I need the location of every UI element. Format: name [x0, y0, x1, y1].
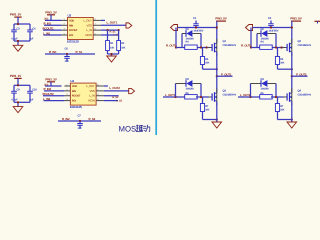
- svg-text:EG3112S: EG3112S: [70, 105, 82, 109]
- resistor R2: [106, 41, 115, 51]
- net label R_S1: [76, 50, 83, 54]
- resistor gate: [185, 41, 198, 50]
- wire: [101, 24, 126, 26]
- svg-text:R_IN2: R_IN2: [62, 117, 70, 121]
- wire: [176, 84, 202, 98]
- net label R_OUT2: [241, 43, 252, 47]
- wire: [278, 65, 292, 70]
- junction: [205, 46, 207, 48]
- net label R_S1: [110, 30, 117, 33]
- svg-text:R_S2: R_S2: [89, 117, 96, 121]
- wire: [217, 75, 233, 77]
- capacitor C6: [64, 48, 70, 64]
- svg-text:P_OUT2: P_OUT2: [296, 72, 307, 76]
- wire: [253, 27, 292, 29]
- wire: [43, 95, 64, 97]
- wire: [250, 28, 252, 48]
- wire: [257, 34, 276, 48]
- net label L_S2: [116, 99, 122, 102]
- wire: [182, 34, 201, 48]
- svg-text:EG3112S: EG3112S: [67, 39, 79, 43]
- net label L_IN2: [43, 97, 51, 101]
- junction: [275, 46, 277, 48]
- power port partial: [315, 21, 320, 23]
- svg-text:U4: U4: [70, 79, 74, 83]
- net label L_OUT1: [107, 21, 118, 25]
- wire: [14, 17, 30, 24]
- resistor gate: [260, 41, 273, 50]
- svg-text:RCI: RCI: [69, 34, 73, 37]
- svg-text:RCOUT: RCOUT: [72, 95, 81, 98]
- junction: [17, 84, 19, 86]
- svg-text:10K: 10K: [121, 47, 125, 50]
- svg-text:10uF/25V: 10uF/25V: [194, 29, 204, 32]
- U3 part number: [67, 39, 79, 43]
- wire: [277, 48, 279, 57]
- wire: [14, 102, 30, 106]
- wire: [14, 41, 30, 45]
- svg-text:VSS: VSS: [89, 89, 94, 93]
- junction: [200, 96, 202, 98]
- junction: [280, 46, 282, 48]
- wire: [104, 90, 129, 92]
- wire: [45, 15, 62, 21]
- power port PW3_3V: [10, 74, 22, 79]
- resistor R3: [117, 41, 126, 51]
- capacitor C9: [11, 85, 20, 102]
- wire: [291, 21, 293, 43]
- junction: [17, 101, 19, 103]
- svg-text:3V3: 3V3: [44, 18, 49, 21]
- net label R_S2: [112, 96, 119, 99]
- svg-text:3V3: 3V3: [44, 83, 49, 86]
- svg-text:RCIN: RCIN: [88, 99, 94, 103]
- junction: [79, 120, 81, 122]
- svg-text:1uF: 1uF: [78, 127, 83, 130]
- svg-text:PW3_3V: PW3_3V: [45, 10, 57, 14]
- svg-text:RCOUT: RCOUT: [69, 29, 78, 32]
- wire: [108, 51, 119, 57]
- svg-text:L_OUT1: L_OUT1: [107, 21, 118, 25]
- wire: [271, 96, 284, 98]
- svg-text:R_IN1: R_IN1: [49, 50, 57, 54]
- wire: [104, 95, 119, 97]
- svg-text:1N4148: 1N4148: [186, 87, 195, 90]
- net label P_OUT1: [221, 72, 232, 76]
- svg-text:U3: U3: [68, 13, 72, 17]
- U3 pin numbers: [64, 18, 97, 36]
- net label RCOUT1: [43, 26, 55, 30]
- diode D4: [261, 78, 270, 90]
- net label 3V3: [44, 18, 49, 21]
- junction: [175, 46, 177, 48]
- ground: [107, 56, 117, 62]
- ground: [13, 107, 23, 113]
- svg-text:CSD18509-N: CSD18509-N: [223, 93, 237, 96]
- svg-text:PW3_3V: PW3_3V: [10, 13, 22, 17]
- svg-text:1uF: 1uF: [29, 99, 34, 102]
- junction: [249, 96, 251, 98]
- IC U4: [70, 79, 96, 105]
- net label L_OUT2: [240, 93, 251, 97]
- wire: [216, 52, 218, 76]
- net label RCOUT2: [43, 92, 55, 96]
- resistor 10K: [275, 104, 284, 112]
- junction: [291, 75, 293, 77]
- wire: [45, 53, 95, 55]
- junction: [291, 68, 293, 70]
- net label 3V3: [44, 83, 49, 86]
- junction: [250, 46, 252, 48]
- separator line: [155, 0, 157, 135]
- wire: [44, 90, 64, 92]
- resistor 10K: [200, 104, 209, 112]
- diode D1: [186, 28, 195, 40]
- svg-text:VDD: VDD: [69, 19, 74, 22]
- svg-text:CSD18509-N: CSD18509-N: [298, 93, 312, 96]
- svg-text:R_IN2: R_IN2: [44, 87, 52, 91]
- wire: [178, 27, 217, 29]
- wire: [44, 100, 65, 102]
- junction: [216, 75, 218, 77]
- svg-text:PW3_5V: PW3_5V: [215, 17, 227, 21]
- svg-text:L_OUT: L_OUT: [86, 84, 95, 88]
- wire: [202, 48, 204, 57]
- svg-text:PW3_3V: PW3_3V: [45, 77, 57, 81]
- capacitor C7: [77, 115, 83, 131]
- wire: [251, 84, 277, 98]
- wire: [216, 76, 218, 92]
- svg-text:L_OUT2: L_OUT2: [109, 86, 120, 90]
- svg-text:1uF: 1uF: [29, 37, 34, 40]
- net label R_IN2: [44, 87, 52, 91]
- wire: [44, 34, 62, 36]
- transistor Q4: [283, 89, 311, 106]
- power port PW3_5V: [290, 17, 302, 22]
- resistor 10K: [275, 57, 284, 65]
- title MOS drive: [119, 124, 150, 133]
- svg-text:1uF: 1uF: [65, 60, 70, 63]
- svg-text:C10: C10: [32, 89, 37, 92]
- svg-text:10K: 10K: [205, 109, 209, 112]
- junction: [270, 26, 272, 28]
- svg-text:R_S1: R_S1: [76, 50, 83, 54]
- power port PW3_5V: [215, 17, 227, 22]
- net label R_IN1: [44, 22, 52, 26]
- wire: [14, 78, 30, 85]
- svg-text:0.1uF: 0.1uF: [12, 37, 19, 40]
- junction: [275, 96, 277, 98]
- transistor Q1: [208, 39, 236, 56]
- svg-text:RIN: RIN: [72, 90, 76, 93]
- wire: [43, 29, 62, 31]
- U4 part number: [70, 105, 82, 109]
- junction: [174, 96, 176, 98]
- wire: [101, 19, 105, 21]
- junction: [200, 46, 202, 48]
- IC U3: [68, 13, 94, 39]
- svg-text:L_S2: L_S2: [116, 99, 122, 102]
- wire: [216, 101, 218, 122]
- U4 pin numbers: [66, 83, 99, 101]
- net label P_OUT2: [296, 72, 307, 76]
- svg-text:VSS: VSS: [87, 23, 92, 27]
- svg-text:L_IN: L_IN: [86, 28, 91, 32]
- wire: [101, 29, 119, 31]
- U4 pin names: [72, 84, 95, 103]
- junction: [216, 68, 218, 70]
- junction: [195, 26, 197, 28]
- wire: [202, 97, 204, 104]
- svg-text:MOS: MOS: [119, 124, 137, 133]
- svg-text:L_OUT2: L_OUT2: [240, 93, 251, 97]
- wire: [203, 65, 217, 70]
- U3 pins: [62, 20, 102, 35]
- wire: [291, 76, 293, 92]
- wire: [175, 28, 177, 48]
- wire: [101, 34, 118, 36]
- port L_OUT2: [129, 88, 135, 93]
- svg-text:RIN: RIN: [69, 24, 73, 27]
- svg-text:L_OUT1: L_OUT1: [165, 93, 176, 97]
- port input: [171, 25, 178, 31]
- wire: [118, 30, 120, 40]
- svg-text:RCOUT1: RCOUT1: [43, 26, 55, 30]
- wire: [238, 96, 260, 98]
- junction: [118, 29, 120, 31]
- capacitor C2: [268, 17, 279, 32]
- capacitor C4: [27, 24, 36, 41]
- svg-text:RCIN: RCIN: [85, 33, 91, 37]
- svg-text:L_IN2: L_IN2: [43, 97, 51, 101]
- svg-text:CSD18509-N: CSD18509-N: [298, 44, 312, 47]
- wire: [291, 52, 293, 76]
- svg-text:10K: 10K: [110, 47, 114, 50]
- power port PW3_3V: [45, 10, 57, 15]
- wire: [216, 21, 218, 43]
- svg-text:10uF/25V: 10uF/25V: [269, 29, 279, 32]
- power port PW3_3V: [10, 13, 22, 18]
- diode D3: [186, 78, 195, 90]
- wire: [104, 85, 108, 87]
- svg-text:L_OUT: L_OUT: [83, 18, 92, 22]
- net label R_S2: [89, 117, 96, 121]
- wire: [58, 120, 101, 122]
- capacitor C1: [193, 17, 204, 32]
- net label L_S1: [113, 34, 119, 37]
- junction: [291, 26, 293, 28]
- svg-text:10K: 10K: [205, 62, 209, 65]
- junction: [66, 53, 68, 55]
- ground: [287, 122, 297, 128]
- wire: [203, 112, 217, 120]
- transistor Q2: [283, 39, 311, 56]
- svg-text:VDD: VDD: [72, 85, 77, 88]
- power port PW3_3V: [45, 77, 57, 82]
- junction: [110, 53, 112, 55]
- wire: [44, 24, 62, 26]
- wire: [292, 75, 308, 77]
- wire: [291, 101, 293, 122]
- svg-text:PW3_3V: PW3_3V: [10, 74, 22, 78]
- wire: [104, 100, 118, 102]
- svg-text:P_OUT1: P_OUT1: [221, 72, 232, 76]
- transistor Q3: [208, 89, 236, 106]
- svg-text:PW3_5V: PW3_5V: [290, 17, 302, 21]
- wire: [176, 47, 209, 49]
- svg-text:L_IN: L_IN: [89, 94, 94, 98]
- svg-text:10K: 10K: [280, 62, 284, 65]
- junction: [291, 118, 293, 120]
- wire: [277, 97, 279, 104]
- svg-text:CSD18509-N: CSD18509-N: [223, 44, 237, 47]
- wire: [107, 30, 109, 40]
- svg-text:0.1uF: 0.1uF: [12, 99, 19, 102]
- junction: [106, 29, 108, 31]
- svg-text:10K: 10K: [280, 109, 284, 112]
- svg-text:RCOUT2: RCOUT2: [43, 92, 55, 96]
- port input: [246, 25, 253, 31]
- wire: [163, 96, 185, 98]
- U4 pins: [64, 86, 104, 101]
- net label R_IN1: [49, 50, 57, 54]
- wire: [278, 112, 292, 120]
- wire: [251, 47, 284, 49]
- capacitor C10: [27, 85, 37, 102]
- port L_OUT1: [126, 23, 132, 28]
- capacitor C3: [11, 24, 20, 41]
- wire: [45, 82, 62, 86]
- net label L_IN1: [43, 31, 51, 35]
- resistor gate: [260, 92, 273, 99]
- resistor gate: [185, 92, 198, 99]
- net label R_IN2: [62, 117, 70, 121]
- U3 pin names: [69, 18, 92, 37]
- ground: [212, 122, 222, 128]
- svg-text:L_IN1: L_IN1: [43, 31, 51, 35]
- net label L_OUT2: [109, 86, 120, 90]
- junction: [216, 118, 218, 120]
- svg-text:1N4148: 1N4148: [261, 87, 270, 90]
- ground: [13, 45, 23, 51]
- net label R_OUT1: [166, 43, 177, 47]
- junction: [17, 23, 19, 25]
- wire: [196, 96, 209, 98]
- resistor 10K: [200, 57, 209, 65]
- net label L_OUT1: [165, 93, 176, 97]
- svg-text:RCI: RCI: [72, 100, 76, 103]
- diode D2: [261, 28, 270, 40]
- svg-text:R_IN1: R_IN1: [44, 22, 52, 26]
- junction: [17, 40, 19, 42]
- junction: [216, 26, 218, 28]
